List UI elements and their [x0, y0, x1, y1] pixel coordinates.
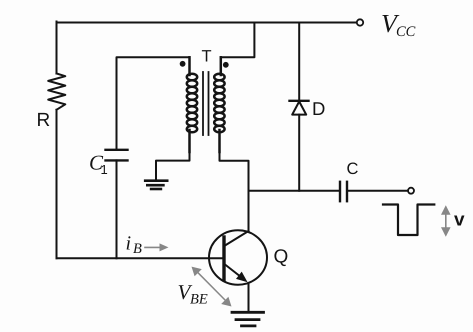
arrow iB	[145, 243, 169, 251]
terminal VCC	[357, 19, 363, 25]
svg-text:T: T	[202, 48, 212, 66]
transistor Q circle	[209, 230, 267, 284]
transistor emitter stroke	[225, 265, 248, 283]
wire C1 branch top	[117, 57, 190, 149]
wire right winding bottom to collector node	[220, 152, 249, 231]
wire left rail lower	[56, 110, 58, 258]
wire C1 bottom	[116, 160, 118, 258]
transformer core	[202, 72, 204, 135]
capacitor C1	[106, 149, 128, 151]
wire collector node to output	[249, 190, 340, 192]
ground emitter	[232, 312, 264, 326]
wire left winding bottom to ground	[156, 152, 190, 180]
polarity dot right	[223, 62, 229, 68]
wire emitter to ground	[248, 283, 250, 312]
svg-text:i: i	[126, 233, 132, 255]
svg-text:Q: Q	[274, 247, 289, 268]
arrow v amplitude	[441, 205, 451, 237]
polarity dot left	[180, 61, 186, 67]
ground transformer	[145, 181, 167, 189]
capacitor C	[340, 182, 347, 201]
resistor R	[48, 74, 65, 110]
arrow VBE	[192, 267, 232, 307]
transformer right winding	[214, 57, 224, 152]
svg-text:v: v	[454, 210, 465, 231]
wire left rail upper	[56, 22, 58, 74]
transformer left winding	[187, 57, 197, 152]
wire base rail	[57, 257, 225, 259]
svg-text:CC: CC	[396, 24, 416, 40]
transistor base bar	[222, 237, 225, 280]
wire diode branch	[298, 23, 300, 102]
wire top rail	[57, 22, 357, 24]
svg-text:D: D	[312, 98, 325, 119]
svg-text:1: 1	[101, 162, 108, 177]
wire C to output terminal	[347, 190, 408, 192]
diode D	[290, 101, 309, 191]
terminal output	[408, 188, 414, 194]
transistor collector stroke	[225, 231, 249, 246]
svg-text:BE: BE	[190, 292, 208, 308]
waveform pulse	[383, 205, 434, 236]
svg-text:B: B	[133, 241, 142, 257]
svg-text:C: C	[347, 160, 359, 178]
wire right winding top to rail	[221, 23, 255, 58]
svg-text:R: R	[37, 110, 51, 131]
